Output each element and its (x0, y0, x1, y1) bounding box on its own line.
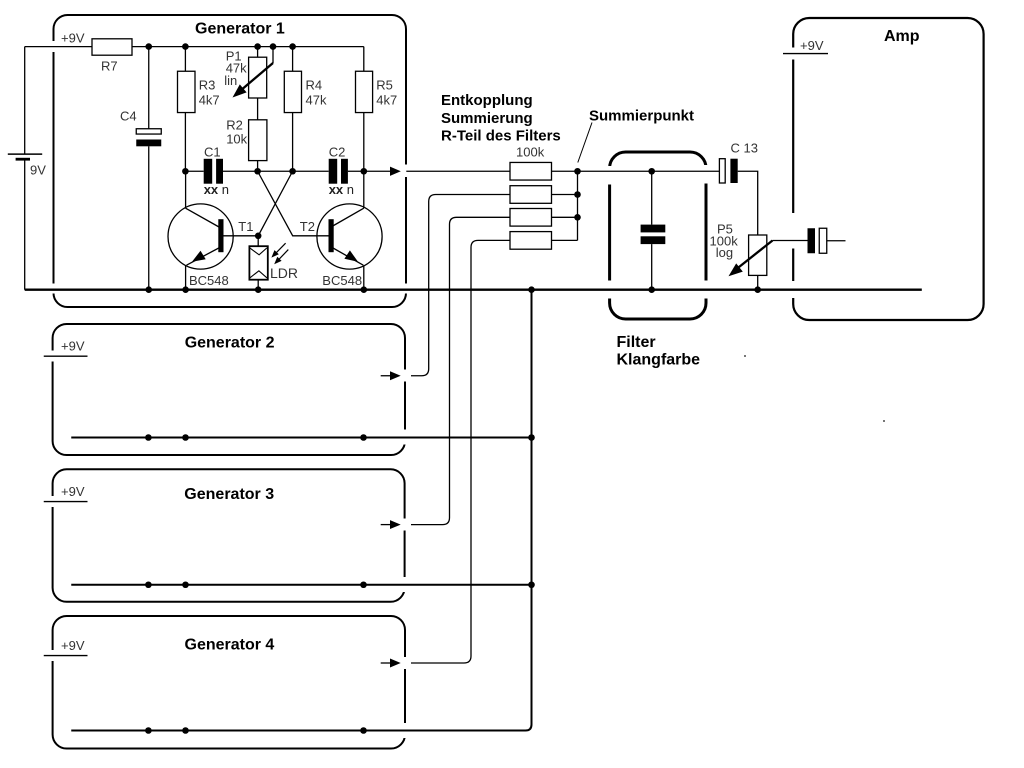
svg-text:T1: T1 (238, 219, 253, 234)
svg-text:+9V: +9V (61, 484, 85, 499)
svg-text:log: log (716, 245, 733, 260)
svg-text:Summierpunkt: Summierpunkt (589, 108, 694, 125)
svg-text:Klangfarbe: Klangfarbe (617, 352, 701, 369)
svg-text:9V: 9V (30, 163, 46, 178)
svg-text:R7: R7 (101, 59, 118, 74)
svg-text:BC548: BC548 (322, 273, 362, 288)
svg-text:C1: C1 (204, 145, 221, 160)
svg-text:4k7: 4k7 (199, 93, 220, 108)
svg-text:BC548: BC548 (189, 273, 229, 288)
svg-text:xx n: xx n (204, 182, 229, 197)
svg-text:Entkopplung: Entkopplung (441, 92, 533, 109)
svg-text:Generator 3: Generator 3 (184, 486, 274, 503)
svg-text:Filter: Filter (617, 334, 656, 351)
svg-text:100k: 100k (516, 145, 545, 160)
svg-text:C 13: C 13 (731, 141, 758, 156)
svg-text:Generator 2: Generator 2 (185, 335, 275, 352)
svg-text:R-Teil des Filters: R-Teil des Filters (441, 128, 561, 145)
svg-text:LDR: LDR (270, 265, 298, 281)
svg-text:T2: T2 (300, 219, 315, 234)
svg-text:10k: 10k (226, 132, 247, 147)
svg-text:R2: R2 (226, 118, 243, 133)
svg-text:+9V: +9V (61, 638, 85, 653)
svg-text:C2: C2 (329, 145, 346, 160)
svg-text:+9V: +9V (61, 339, 85, 354)
svg-text:Generator 1: Generator 1 (195, 21, 285, 38)
svg-text:xx n: xx n (329, 182, 354, 197)
svg-text:lin: lin (224, 73, 237, 88)
svg-text:+9V: +9V (800, 38, 824, 53)
svg-text:R5: R5 (376, 78, 393, 93)
svg-text:C4: C4 (120, 109, 137, 124)
svg-text:Amp: Amp (884, 28, 920, 45)
svg-text:R4: R4 (306, 78, 323, 93)
svg-text:+9V: +9V (61, 31, 85, 46)
svg-text:47k: 47k (306, 93, 327, 108)
svg-text:4k7: 4k7 (376, 93, 397, 108)
svg-text:Generator 4: Generator 4 (185, 637, 275, 654)
svg-text:Summierung: Summierung (441, 110, 533, 127)
svg-text:R3: R3 (199, 78, 216, 93)
